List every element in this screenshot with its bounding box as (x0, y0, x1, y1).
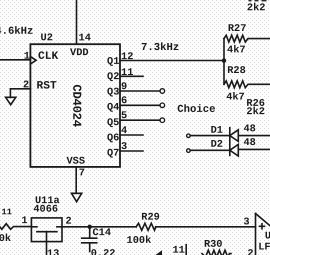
svg-text:9: 9 (121, 81, 127, 93)
svg-text:6: 6 (121, 95, 127, 107)
svg-text:100k: 100k (0, 233, 11, 245)
svg-text:11: 11 (2, 207, 12, 217)
svg-text:3: 3 (243, 216, 249, 228)
svg-text:Q7: Q7 (107, 148, 119, 160)
svg-text:2: 2 (65, 216, 71, 228)
svg-text:3: 3 (121, 141, 127, 153)
svg-text:2: 2 (247, 248, 253, 255)
svg-text:R29: R29 (141, 212, 160, 224)
svg-text:0.22: 0.22 (91, 248, 116, 255)
svg-text:R28: R28 (227, 65, 246, 77)
svg-text:2: 2 (23, 79, 29, 91)
svg-text:Q5: Q5 (107, 117, 119, 129)
svg-text:4: 4 (121, 125, 127, 137)
svg-text:R27: R27 (228, 23, 247, 35)
svg-text:2k2: 2k2 (247, 2, 266, 14)
svg-text:1: 1 (21, 215, 27, 227)
svg-text:4k7: 4k7 (227, 44, 246, 56)
svg-text:4.6kHz: 4.6kHz (0, 26, 33, 38)
svg-text:Q1: Q1 (107, 56, 119, 68)
svg-text:RST: RST (37, 81, 57, 93)
svg-text:13: 13 (47, 248, 59, 255)
svg-text:Q2: Q2 (107, 71, 119, 83)
svg-text:Choice: Choice (177, 104, 215, 116)
svg-text:Q6: Q6 (107, 132, 119, 144)
svg-text:U2: U2 (41, 32, 53, 44)
svg-text:7: 7 (79, 167, 85, 179)
svg-text:D1: D1 (211, 125, 223, 137)
svg-text:CLK: CLK (38, 51, 58, 63)
svg-text:D2: D2 (211, 139, 223, 151)
svg-text:CD4024: CD4024 (69, 84, 83, 126)
svg-text:2k2: 2k2 (246, 106, 265, 118)
svg-text:Q4: Q4 (107, 102, 119, 114)
svg-text:48: 48 (243, 137, 255, 149)
svg-text:1: 1 (24, 51, 30, 63)
svg-text:14: 14 (79, 32, 91, 44)
svg-text:4066: 4066 (33, 204, 58, 216)
svg-text:48: 48 (243, 123, 255, 135)
svg-text:11: 11 (172, 245, 184, 255)
svg-text:Q3: Q3 (107, 86, 119, 98)
svg-text:VDD: VDD (70, 47, 89, 59)
svg-text:12: 12 (121, 51, 133, 63)
svg-text:7.3kHz: 7.3kHz (141, 42, 179, 54)
svg-text:4k7: 4k7 (226, 92, 245, 104)
svg-text:100k: 100k (127, 235, 152, 247)
svg-text:5: 5 (121, 110, 127, 122)
svg-text:R30: R30 (204, 239, 223, 251)
svg-text:LF35: LF35 (258, 241, 270, 253)
svg-text:11: 11 (121, 67, 133, 79)
svg-text:C14: C14 (92, 227, 111, 239)
svg-text:VSS: VSS (66, 156, 85, 168)
